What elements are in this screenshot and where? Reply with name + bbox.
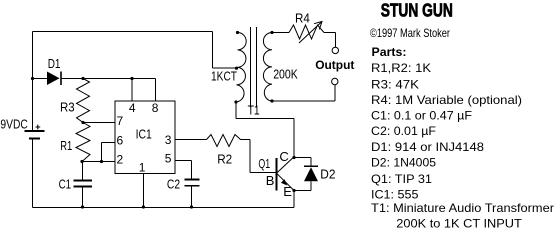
svg-text:D1: D1	[48, 56, 61, 71]
svg-text:E: E	[283, 184, 292, 199]
wire pin 7	[83, 122, 115, 124]
node primary bottom	[234, 100, 237, 103]
wire pin 2	[82, 161, 115, 163]
wire C2 to ground rail	[191, 186, 193, 208]
resistor R3	[77, 79, 90, 123]
node pin4 tap	[130, 77, 133, 80]
wire pin 8 drop	[155, 79, 157, 102]
node pin1 ground	[142, 205, 145, 208]
svg-text:Output: Output	[315, 58, 354, 72]
svg-text:2: 2	[117, 152, 124, 166]
wire pin 5	[175, 161, 192, 180]
battery 9VDC	[25, 125, 45, 139]
svg-text:4: 4	[129, 101, 136, 115]
svg-text:D2: 1N4005: D2: 1N4005	[371, 156, 436, 170]
output terminal bottom	[332, 78, 338, 84]
transformer T1 secondary winding	[263, 33, 272, 102]
node emitter	[292, 189, 295, 192]
node R3 top	[81, 77, 84, 80]
wire pin 3	[175, 139, 207, 141]
svg-text:R3: 47K: R3: 47K	[371, 77, 419, 91]
svg-text:IC1: IC1	[136, 126, 152, 141]
wire rail drop to transformer	[212, 32, 214, 69]
svg-text:C1: C1	[59, 176, 72, 191]
wire R1 to C1	[82, 162, 84, 181]
node primary top	[236, 31, 239, 34]
op-amp U1 (timer IC1 555 box)	[115, 101, 175, 174]
wire pin 1 drop	[142, 174, 144, 208]
capacitor C1	[73, 181, 92, 187]
wire output bottom return	[272, 85, 335, 101]
node center tap	[235, 67, 238, 70]
resistor R2	[207, 135, 241, 147]
svg-text:D1: 914 or INJ4148: D1: 914 or INJ4148	[371, 140, 484, 154]
svg-text:C2: 0.01 µF: C2: 0.01 µF	[371, 124, 436, 138]
node D1 anode rail	[31, 77, 34, 80]
svg-text:C2: C2	[167, 177, 180, 192]
svg-text:8: 8	[152, 101, 159, 115]
node C1 ground	[81, 205, 84, 208]
svg-text:6: 6	[117, 134, 124, 148]
node collector	[292, 156, 295, 159]
wire D2 to emitter node	[294, 181, 311, 190]
node junction dots	[31, 31, 296, 209]
wire D1 anode	[33, 78, 48, 80]
svg-text:Q1: Q1	[258, 156, 270, 171]
wire collector to D2	[294, 158, 311, 167]
svg-text:R1,R2: 1K: R1,R2: 1K	[371, 61, 431, 75]
svg-text:9VDC: 9VDC	[0, 117, 27, 132]
resistor R1	[76, 123, 90, 162]
wire bottom rail	[33, 207, 295, 209]
transformer T1 primary winding	[236, 33, 246, 103]
svg-text:1KCT: 1KCT	[211, 69, 237, 84]
transistor Q1	[277, 157, 295, 190]
diode D2	[304, 166, 318, 181]
wire R4 to output	[324, 33, 335, 48]
svg-text:200K: 200K	[273, 66, 298, 81]
wire primary bottom to collector	[236, 102, 294, 157]
svg-text:R4: R4	[295, 11, 310, 26]
svg-text:Q1: TIP 31: Q1: TIP 31	[371, 172, 432, 186]
svg-text:R1: R1	[60, 138, 72, 153]
svg-text:STUN GUN: STUN GUN	[381, 0, 453, 20]
diode D1	[47, 72, 61, 86]
wire D1 cathode to pins 4/8	[62, 78, 156, 80]
svg-text:C1: 0.1 or 0.47 µF: C1: 0.1 or 0.47 µF	[371, 108, 472, 122]
svg-text:Parts:: Parts:	[372, 45, 407, 59]
node C2 ground	[190, 205, 193, 208]
node pin6 elbow	[100, 160, 103, 163]
svg-text:©1997 Mark Stoker: ©1997 Mark Stoker	[370, 26, 450, 40]
svg-text:1: 1	[139, 160, 146, 174]
svg-text:C: C	[279, 149, 288, 164]
svg-text:B: B	[266, 173, 275, 188]
node R1 bottom	[80, 160, 83, 163]
wire C1 to ground rail	[82, 187, 84, 208]
output terminal top	[332, 47, 338, 53]
wire secondary top to R4	[272, 32, 289, 34]
transformer T1 core	[251, 27, 257, 108]
svg-text:R2: R2	[217, 151, 232, 166]
svg-text:D2: D2	[320, 167, 335, 182]
node secondary bottom	[270, 99, 273, 102]
node R3/R1 pin7	[81, 121, 84, 124]
wire center tap feed	[213, 67, 237, 69]
wire emitter node to ground rail	[293, 191, 295, 208]
wire R2 to base	[241, 140, 277, 173]
svg-text:T1: T1	[248, 103, 260, 118]
svg-text:3: 3	[165, 133, 172, 147]
capacitor C2	[185, 180, 200, 186]
svg-text:7: 7	[117, 114, 124, 128]
wire pin 4 drop	[131, 79, 133, 102]
wire left rail upper	[32, 32, 34, 132]
svg-text:R3: R3	[60, 100, 75, 115]
svg-text:200K to 1K CT INPUT: 200K to 1K CT INPUT	[396, 217, 522, 231]
R4 wiper arrow	[299, 22, 322, 44]
wire left rail lower	[32, 139, 34, 208]
svg-text:T1: Miniature Audio Transforme: T1: Miniature Audio Transformer	[371, 201, 554, 215]
node secondary top	[270, 31, 273, 34]
svg-text:R4: 1M Variable (optional): R4: 1M Variable (optional)	[371, 93, 522, 107]
resistor R4 (variable)	[289, 25, 324, 39]
svg-text:5: 5	[165, 151, 172, 165]
wire pin 6	[102, 143, 116, 162]
wire top rail	[33, 31, 213, 33]
svg-text:IC1: 555: IC1: 555	[371, 188, 419, 202]
